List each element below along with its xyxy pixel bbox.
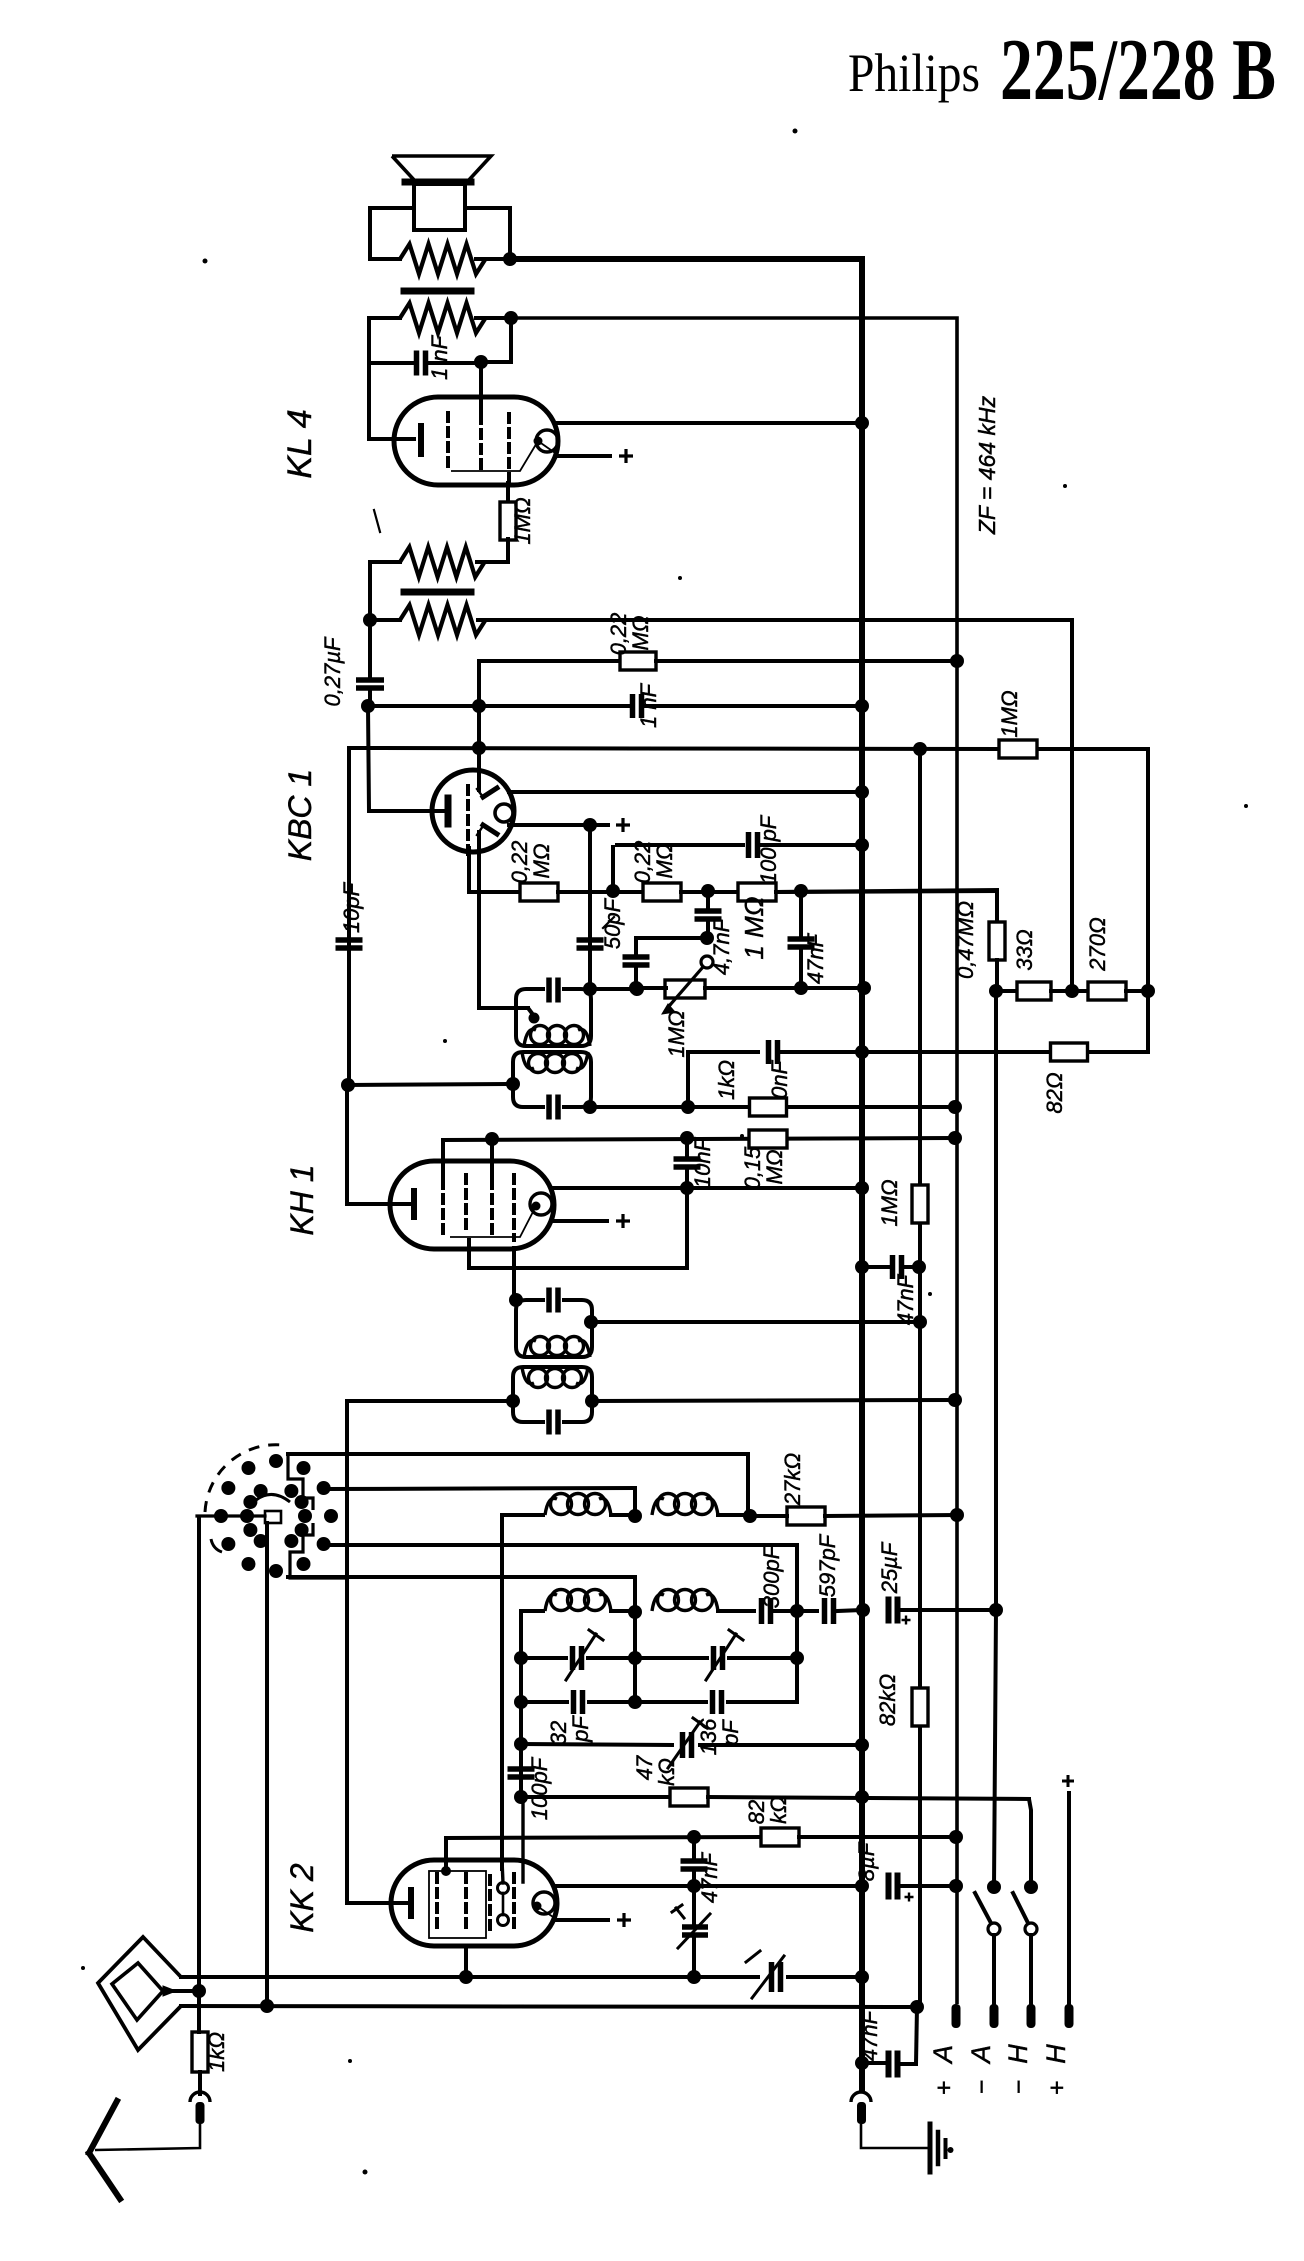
svg-text:ZF = 464 kHz: ZF = 464 kHz <box>974 395 1000 535</box>
svg-text:300pF: 300pF <box>759 1544 784 1608</box>
svg-text:pF: pF <box>568 1715 593 1743</box>
svg-text:8µF: 8µF <box>854 1841 879 1881</box>
svg-text:H: H <box>1003 2044 1033 2064</box>
svg-text:MΩ: MΩ <box>652 843 677 878</box>
svg-text:47nF: 47nF <box>803 932 828 984</box>
svg-text:100 pF: 100 pF <box>756 814 781 884</box>
svg-text:A: A <box>966 2045 996 2065</box>
svg-text:1 MΩ: 1 MΩ <box>739 896 769 959</box>
svg-text:KK 2: KK 2 <box>284 1863 320 1933</box>
svg-text:10nF: 10nF <box>690 1136 715 1188</box>
svg-text:Philips: Philips <box>848 43 980 103</box>
svg-text:270Ω: 270Ω <box>1085 917 1110 971</box>
svg-text:−: − <box>968 2080 996 2095</box>
svg-text:1MΩ: 1MΩ <box>510 497 535 544</box>
svg-text:1kΩ: 1kΩ <box>714 1060 739 1100</box>
svg-text:225/228 B: 225/228 B <box>1000 22 1276 119</box>
svg-text:MΩ: MΩ <box>762 1149 787 1184</box>
svg-text:82kΩ: 82kΩ <box>875 1674 900 1726</box>
svg-text:0,47MΩ: 0,47MΩ <box>953 901 978 979</box>
svg-text:+: + <box>930 2081 958 2096</box>
svg-text:KH 1: KH 1 <box>284 1164 320 1235</box>
svg-text:1MΩ: 1MΩ <box>997 690 1022 737</box>
svg-text:1 nF: 1 nF <box>427 334 452 380</box>
svg-text:47nF: 47nF <box>857 2009 882 2061</box>
svg-text:1MΩ: 1MΩ <box>877 1179 902 1226</box>
svg-text:100pF: 100pF <box>527 1756 552 1820</box>
svg-text:kΩ: kΩ <box>654 1758 679 1786</box>
svg-text:1MΩ: 1MΩ <box>664 1010 689 1057</box>
svg-text:pF: pF <box>718 1719 743 1747</box>
svg-text:47nF: 47nF <box>697 1851 722 1903</box>
svg-text:82Ω: 82Ω <box>1042 1072 1067 1113</box>
svg-text:1kΩ: 1kΩ <box>204 2032 229 2072</box>
svg-text:kΩ: kΩ <box>766 1796 791 1824</box>
svg-text:−: − <box>1005 2080 1033 2095</box>
svg-text:47nF: 47nF <box>893 1273 918 1325</box>
svg-text:597pF: 597pF <box>815 1533 840 1597</box>
svg-text:25µF: 25µF <box>877 1541 902 1594</box>
svg-text:KBC 1: KBC 1 <box>282 769 318 861</box>
svg-text:0,27µF: 0,27µF <box>320 636 345 706</box>
svg-text:27kΩ: 27kΩ <box>780 1453 805 1506</box>
svg-text:33Ω: 33Ω <box>1012 929 1037 970</box>
svg-text:1 nF: 1 nF <box>636 682 661 728</box>
svg-text:A: A <box>928 2045 958 2065</box>
svg-text:H: H <box>1041 2044 1071 2064</box>
svg-text:10pF: 10pF <box>339 881 364 933</box>
svg-text:50pF: 50pF <box>600 897 625 949</box>
svg-text:KL 4: KL 4 <box>281 409 319 478</box>
svg-text:+: + <box>1043 2081 1071 2096</box>
svg-text:MΩ: MΩ <box>529 843 554 878</box>
svg-text:MΩ: MΩ <box>628 615 653 650</box>
